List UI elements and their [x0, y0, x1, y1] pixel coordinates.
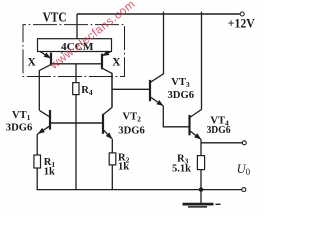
resistor R2 body	[109, 153, 116, 165]
wire from top rail to 4CCM box top	[76, 14, 78, 39]
wire R2 bottom to ground rail	[111, 165, 113, 190]
4CCM block box	[38, 39, 112, 52]
wire VT3 emitter to VT4 base	[163, 106, 189, 127]
svg-text:X: X	[28, 56, 37, 68]
transistor VT2 base bar	[102, 114, 104, 134]
svg-text:VTC: VTC	[43, 10, 67, 25]
node output lower terminal circle	[242, 188, 246, 192]
wire R1 bottom to ground rail	[37, 168, 242, 190]
svg-text:3DG6: 3DG6	[6, 122, 33, 133]
resistor R3 body	[197, 156, 204, 170]
pin stub under 4CCM box	[61, 52, 63, 54]
wire center column from base line down to R4	[75, 64, 77, 83]
transistor VT4 collector lead up to rail	[190, 12, 202, 118]
wire base line VT1-VT2	[50, 122, 103, 124]
ground symbol	[183, 203, 214, 206]
VTC dashed enclosure box	[23, 25, 125, 77]
wire output node down to R3	[200, 143, 202, 156]
svg-text:+12V: +12V	[228, 16, 256, 31]
transistor VT3 collector lead up to rail	[150, 12, 164, 83]
wire VT3 base tap from VT2 collector	[112, 88, 150, 90]
svg-text:VT2: VT2	[123, 111, 142, 123]
resistor R1 body	[34, 155, 41, 168]
transistor VT1 emitter (arrow out, NPN)	[38, 126, 50, 134]
transistor VT1 collector lead	[39, 110, 49, 117]
wire R4 bottom to ground rail	[75, 95, 77, 190]
transistor Xa emitter (arrow into bar, PNP)	[40, 52, 50, 58]
transistor VT4 emitter (arrow out, NPN)	[190, 131, 201, 139]
transistor Xb (right of matched pair) base bar	[101, 54, 103, 70]
wire base line joining pair bases	[51, 63, 102, 65]
svg-text:VT3: VT3	[171, 77, 190, 89]
transistor VT2 collector lead	[111, 73, 113, 107]
svg-text:1k: 1k	[118, 161, 129, 172]
transistor VT3 base bar	[149, 80, 151, 101]
transistor VT3 emitter (arrow out, NPN)	[150, 97, 163, 106]
transistor Xa (left of matched pair) base bar	[50, 53, 52, 66]
svg-text:3DG6: 3DG6	[168, 90, 195, 101]
wire top supply rail	[77, 13, 240, 15]
transistor VT2 emitter (arrow out, NPN)	[103, 130, 112, 139]
node junction dot at ground rail	[199, 187, 203, 191]
transistor Xb emitter (arrow into bar, PNP)	[103, 52, 111, 56]
svg-text:5.1k: 5.1k	[172, 164, 191, 175]
watermark www.elecfans.com	[48, 0, 150, 71]
svg-text:U0: U0	[237, 162, 251, 177]
transistor Xb collector lead	[102, 68, 112, 107]
svg-text:VT1: VT1	[12, 110, 31, 122]
node +12V terminal circle	[240, 12, 244, 16]
wire VT2 emitter to R2	[111, 139, 113, 153]
wire output upper line	[201, 142, 242, 144]
resistor R4 body	[73, 83, 79, 95]
svg-text:3DG6: 3DG6	[207, 125, 231, 136]
svg-text:3DG6: 3DG6	[118, 125, 145, 136]
node output upper terminal circle	[242, 141, 246, 145]
svg-text:1k: 1k	[44, 167, 55, 178]
svg-text:X: X	[112, 57, 121, 69]
wire VT4 emitter down to output node	[200, 139, 202, 143]
wire VT1 emitter to R1	[37, 133, 38, 155]
transistor VT1 base bar	[49, 110, 51, 130]
wire R3 bottom to ground	[200, 170, 202, 204]
svg-text:R4: R4	[81, 85, 93, 97]
transistor VT4 base bar	[188, 115, 190, 135]
transistor Xa collector lead	[39, 64, 51, 110]
